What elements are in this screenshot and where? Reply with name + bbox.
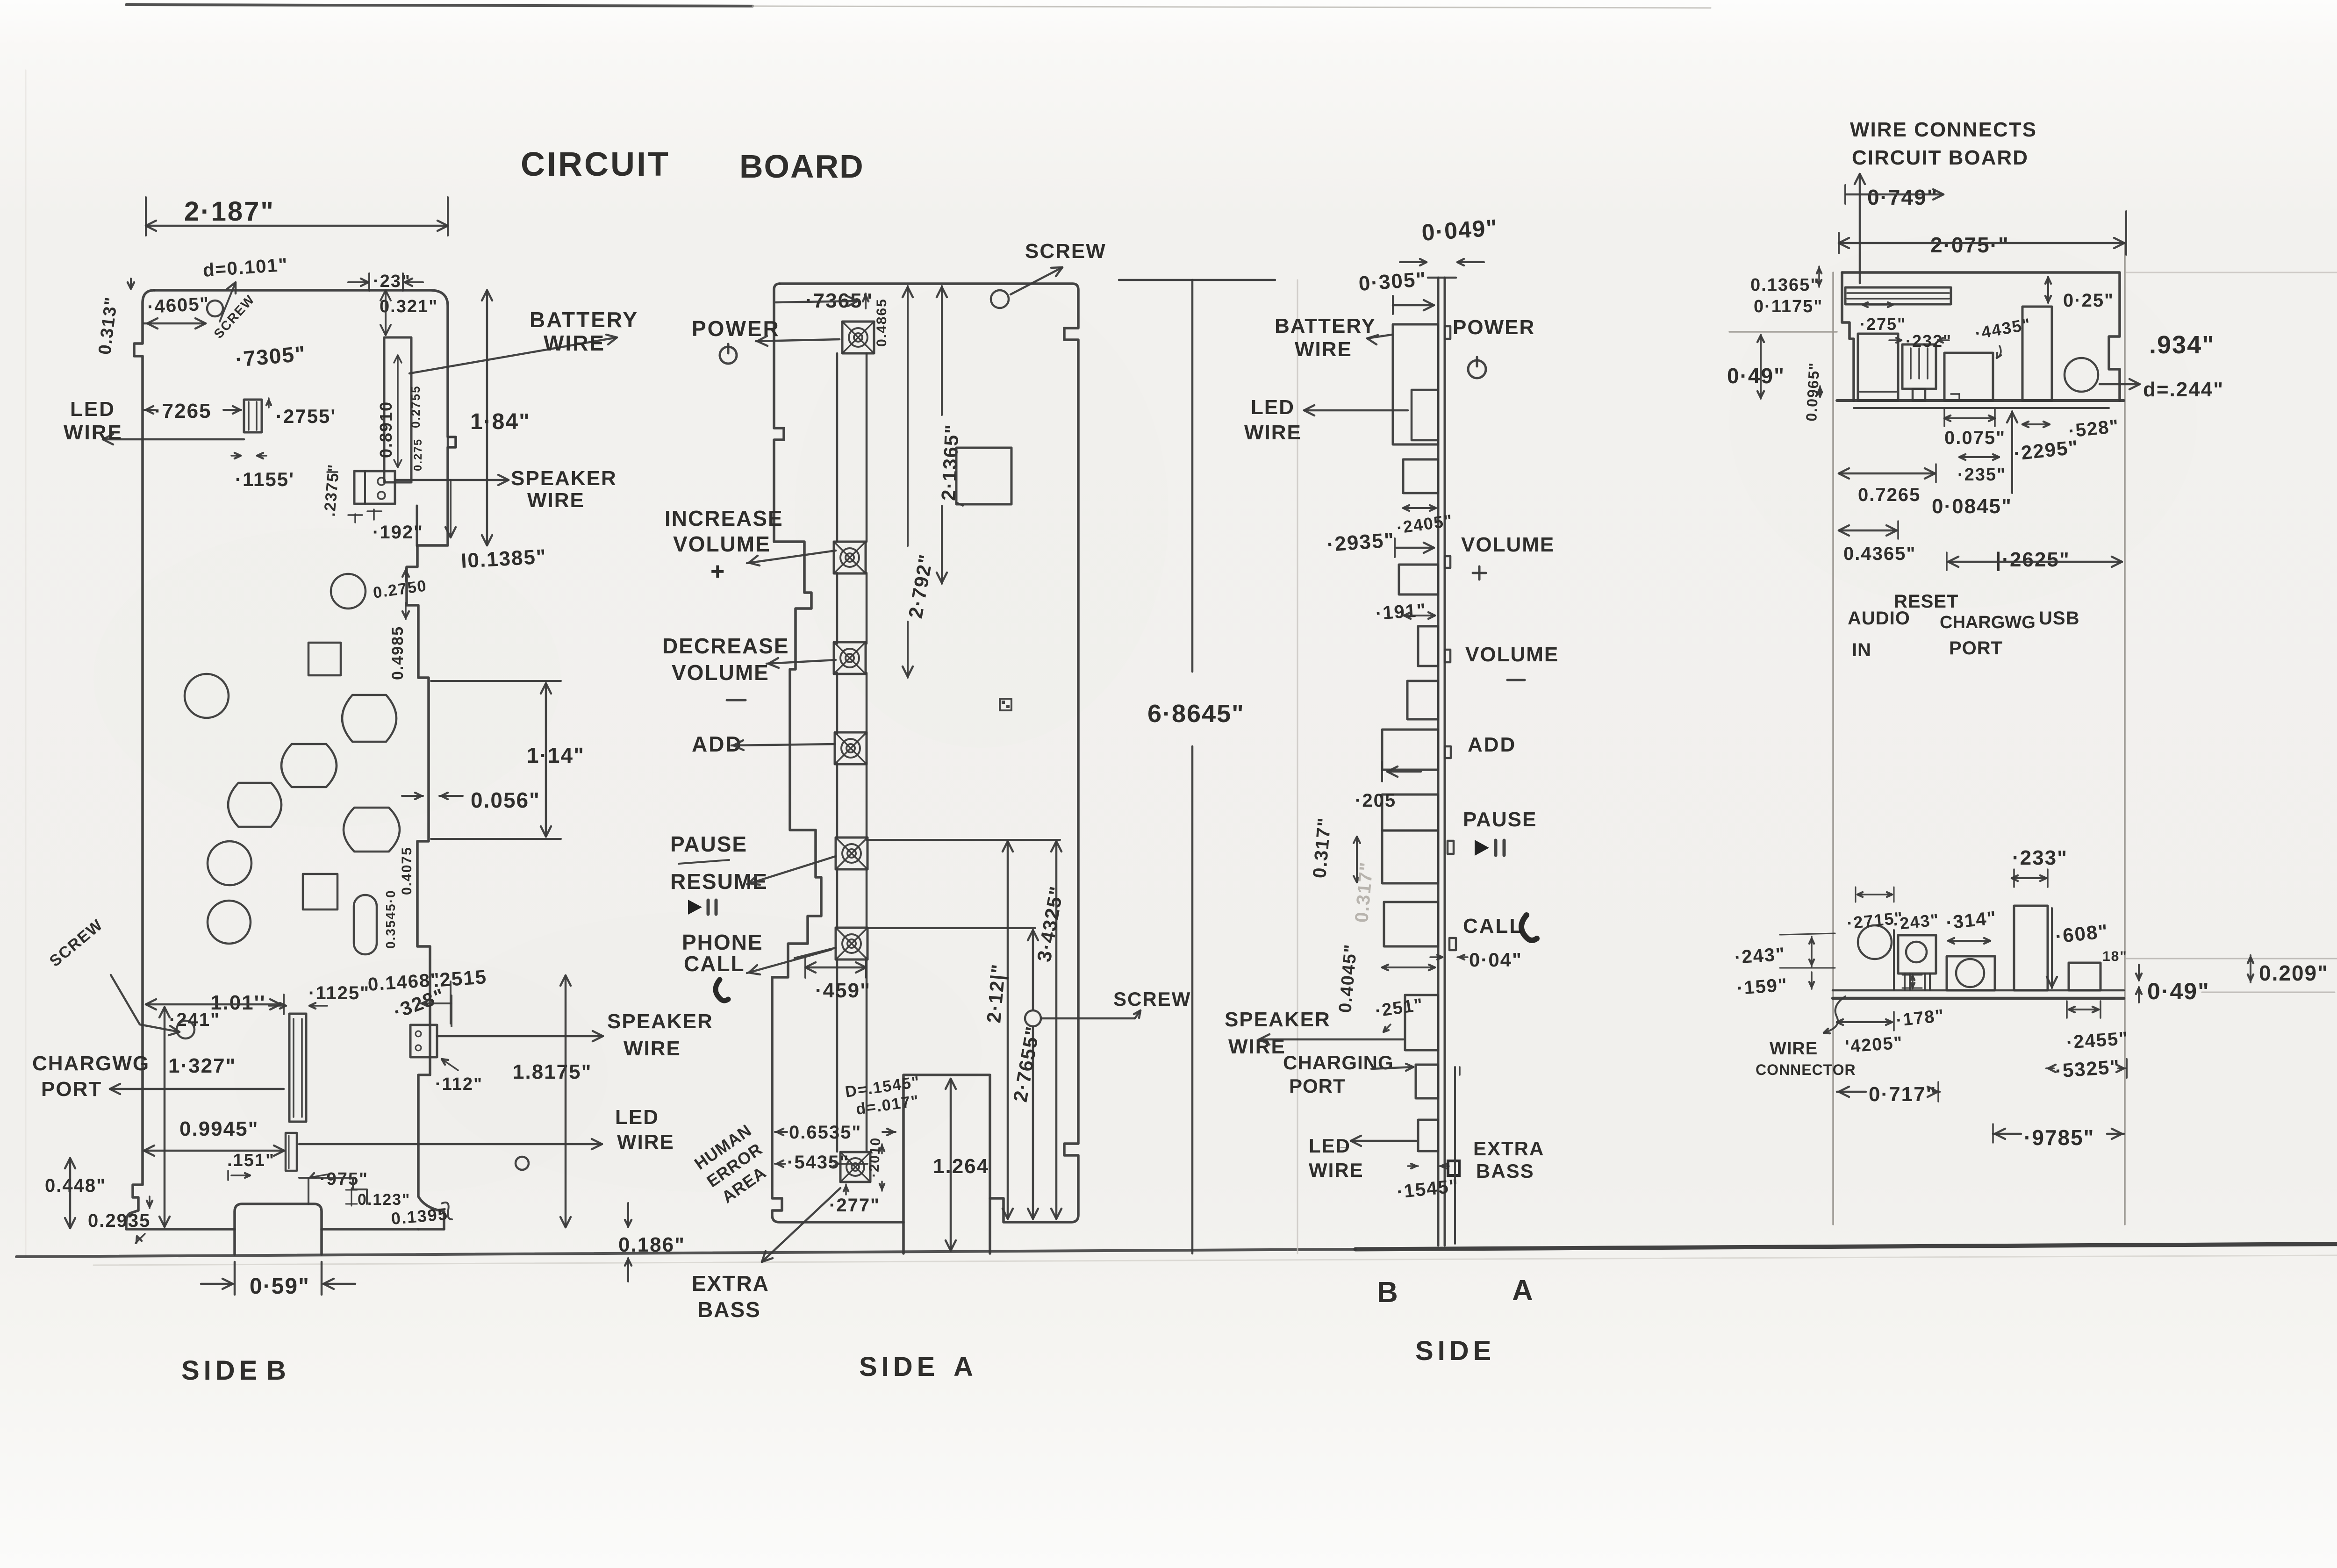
svg-text:0·25": 0·25" [2063,290,2114,311]
svg-text:PAUSE: PAUSE [670,832,747,856]
svg-text:0·59": 0·59" [250,1274,310,1299]
svg-text:0.209": 0.209" [2259,961,2329,985]
svg-text:·235": ·235" [1957,465,2006,485]
svg-text:DECREASE: DECREASE [662,634,789,658]
svg-text:BASS: BASS [1476,1160,1534,1182]
svg-text:VOLUME: VOLUME [673,532,771,556]
svg-text:0.4075: 0.4075 [399,846,415,895]
svg-text:LED: LED [615,1106,659,1129]
svg-text:·2935": ·2935" [1326,529,1395,556]
svg-text:·1125": ·1125" [308,983,370,1003]
svg-text:CIRCUIT BOARD: CIRCUIT BOARD [1852,146,2029,169]
svg-text:0.321": 0.321" [380,297,438,316]
svg-text:WIRE: WIRE [1244,421,1302,444]
svg-text:1·327": 1·327" [168,1054,236,1077]
svg-text:0·749": 0·749" [1867,185,1938,209]
svg-text:·5435": ·5435" [787,1152,849,1173]
svg-text:CHARGWG: CHARGWG [1940,613,2036,632]
svg-text:CONNECTOR: CONNECTOR [1756,1061,1856,1078]
svg-text:LED: LED [1251,396,1295,419]
svg-text:BOARD: BOARD [739,148,864,185]
svg-text:0.3545·0: 0.3545·0 [383,889,398,949]
svg-text:CHARGING: CHARGING [1283,1052,1394,1074]
svg-text:0·0845": 0·0845" [1932,495,2012,518]
svg-text:EXTRA: EXTRA [1473,1138,1544,1160]
svg-text:WIRE: WIRE [527,489,585,512]
svg-text:B: B [1377,1276,1399,1309]
svg-text:BATTERY: BATTERY [1275,315,1376,337]
svg-text:0.4985: 0.4985 [389,626,407,680]
svg-text:0.1365": 0.1365" [1750,275,1820,295]
svg-text:18": 18" [2102,949,2128,964]
svg-text:PORT: PORT [1949,638,2003,659]
svg-text:WIRE: WIRE [1309,1159,1364,1181]
svg-text:·2455": ·2455" [2066,1028,2129,1053]
svg-text:INCREASE: INCREASE [665,506,783,530]
svg-text:·243": ·243" [1734,944,1786,967]
svg-text:·112": ·112" [435,1074,483,1094]
svg-text:0·305": 0·305" [1358,268,1427,295]
svg-text:AUDIO: AUDIO [1848,608,1910,629]
svg-text:LED: LED [1309,1135,1351,1157]
svg-text:0.4365": 0.4365" [1843,544,1916,564]
svg-text:A: A [1512,1274,1534,1307]
svg-text:ADD: ADD [1468,733,1516,756]
svg-text:CALL: CALL [1463,915,1523,938]
svg-text:CIRCUIT: CIRCUIT [521,146,670,183]
svg-text:.934": .934" [2149,331,2215,359]
svg-text:VOLUME: VOLUME [1461,533,1555,556]
svg-text:1.8175": 1.8175" [513,1060,592,1083]
svg-text:+: + [710,558,725,585]
svg-text:WIRE: WIRE [617,1131,674,1153]
svg-text:0.056": 0.056" [471,788,540,812]
svg-text:0.2755: 0.2755 [409,385,423,428]
svg-text:PORT: PORT [41,1078,102,1101]
svg-text:SIDE: SIDE [859,1352,939,1382]
svg-text:0·49": 0·49" [2147,978,2210,1004]
svg-text:BATTERY: BATTERY [530,308,638,332]
svg-text:SIDE: SIDE [1415,1336,1495,1366]
svg-text:I0.1385": I0.1385" [460,545,547,573]
svg-text:WIRE: WIRE [1295,338,1352,361]
svg-text:0·04": 0·04" [1469,949,1522,971]
svg-text:·233": ·233" [2012,846,2068,869]
svg-text:B: B [266,1355,287,1386]
svg-text:WIRE: WIRE [64,421,123,444]
svg-text:SCREW: SCREW [1113,988,1191,1010]
svg-text:0.186": 0.186" [618,1233,685,1256]
svg-text:0.7265: 0.7265 [1858,485,1921,505]
svg-text:SPEAKER: SPEAKER [1225,1008,1331,1031]
svg-text:·191": ·191" [1375,600,1427,623]
svg-text:VOLUME: VOLUME [672,660,769,685]
svg-text:SIDE: SIDE [181,1355,261,1386]
svg-text:·275": ·275" [1860,315,1906,334]
svg-text:·975": ·975" [320,1169,368,1189]
svg-text:·159": ·159" [1736,974,1789,998]
svg-text:VOLUME: VOLUME [1465,643,1559,666]
svg-text:.151": .151" [227,1151,275,1170]
svg-text:0.275: 0.275 [412,438,424,471]
svg-text:·192": ·192" [373,522,423,543]
svg-text:POWER: POWER [1453,316,1535,339]
svg-text:1·84": 1·84" [470,409,530,434]
svg-text:A: A [953,1352,974,1382]
svg-text:0.8910: 0.8910 [376,401,395,458]
svg-text:2·187": 2·187" [184,196,275,227]
svg-text:·277": ·277" [829,1195,880,1216]
svg-text:·7265: ·7265 [154,400,212,422]
svg-text:SCREW: SCREW [1025,240,1106,263]
svg-text:1.264: 1.264 [933,1155,989,1178]
svg-text:0·49": 0·49" [1727,364,1785,388]
svg-text:1·14": 1·14" [527,743,585,767]
svg-text:6·8645": 6·8645" [1147,700,1245,728]
svg-text:0.4865: 0.4865 [874,298,889,347]
svg-text:·4605": ·4605" [147,294,210,317]
svg-text:IN: IN [1852,640,1871,660]
svg-text:WIRE: WIRE [544,331,605,355]
svg-text:WIRE: WIRE [624,1037,681,1060]
svg-text:SPEAKER: SPEAKER [607,1010,713,1033]
svg-text:USB: USB [2039,608,2079,629]
svg-text:·205: ·205 [1355,790,1396,811]
svg-text:0·049": 0·049" [1421,215,1499,246]
svg-text:WIRE: WIRE [1770,1039,1818,1059]
svg-text:·2010: ·2010 [866,1137,883,1178]
svg-text:EXTRA: EXTRA [692,1271,769,1296]
svg-text:0·1175": 0·1175" [1754,297,1823,316]
svg-text:PAUSE: PAUSE [1463,808,1537,831]
svg-text:d=.244": d=.244" [2143,378,2224,401]
svg-text:·5325": ·5325" [2054,1055,2121,1082]
svg-text:WIRE CONNECTS: WIRE CONNECTS [1850,118,2037,141]
svg-text:0.075": 0.075" [1944,428,2006,448]
svg-text:CALL: CALL [684,952,745,976]
svg-text:·459": ·459" [815,979,871,1002]
svg-text:1.01'': 1.01'' [210,991,266,1014]
svg-text:PORT: PORT [1289,1075,1346,1097]
svg-text:'4205": '4205" [1845,1033,1904,1057]
svg-text:·1155': ·1155' [235,468,294,490]
svg-text:LED: LED [70,398,115,421]
svg-text:0.9945": 0.9945" [179,1117,258,1140]
svg-text:2·075·": 2·075·" [1930,233,2009,257]
svg-text:BASS: BASS [697,1297,761,1322]
svg-text:0.6535": 0.6535" [789,1122,861,1143]
svg-text:·9785": ·9785" [2024,1125,2094,1150]
svg-text:CHARGWG: CHARGWG [32,1052,150,1075]
svg-text:SPEAKER: SPEAKER [511,467,617,490]
svg-text:0.2935: 0.2935 [88,1210,151,1231]
svg-text:|·2625": |·2625" [1995,548,2070,572]
svg-text:·2755': ·2755' [276,405,336,427]
svg-text:PHONE: PHONE [682,930,763,954]
svg-text:0.123": 0.123" [358,1191,410,1209]
svg-text:2·1365": 2·1365" [937,423,963,501]
svg-text:0.448": 0.448" [45,1175,106,1196]
svg-text:0·717": 0·717" [1869,1083,1936,1106]
